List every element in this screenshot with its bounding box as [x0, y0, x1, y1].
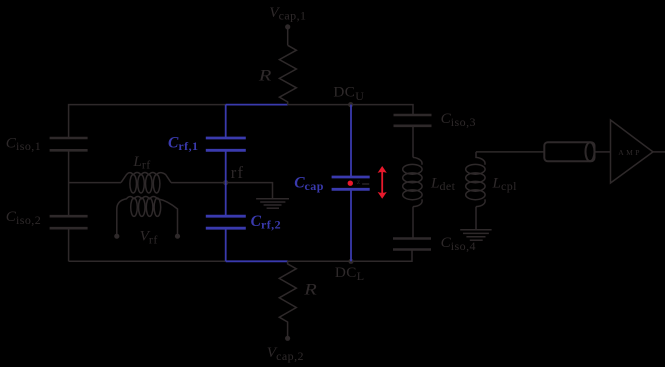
node DC_U	[333, 84, 364, 108]
svg-text:DCL: DCL	[335, 264, 364, 283]
svg-text:Ccap: Ccap	[294, 174, 324, 193]
svg-text:Ldet: Ldet	[430, 174, 456, 193]
wire L_cpl to transmission line	[476, 151, 544, 153]
node V_cap,2	[267, 336, 304, 363]
inductor L_rf	[121, 172, 171, 193]
wire L_cpl to ground	[475, 207, 477, 230]
wire rf node to ground	[226, 183, 273, 199]
tiny z marker next to red dot	[357, 177, 369, 186]
svg-text:AMP: AMP	[618, 148, 642, 157]
svg-text:Vcap,2: Vcap,2	[267, 344, 304, 363]
svg-text:Vrf: Vrf	[140, 228, 158, 247]
capacitor C_iso,2	[50, 216, 88, 228]
transmission line (cylinder)	[544, 142, 594, 161]
wire C_iso,3 to L_det	[412, 126, 414, 158]
capacitor C_cap (blue)	[332, 177, 370, 189]
svg-text:rf: rf	[231, 163, 245, 182]
wire cylinder to amplifier	[595, 151, 611, 153]
wire bottom rail left (dark)	[69, 260, 226, 262]
svg-text:Crf,2: Crf,2	[251, 213, 281, 232]
wire middle rail from left rail to L_rf	[69, 182, 121, 184]
wire top rail middle (blue)	[226, 104, 288, 106]
node V_cap,1	[269, 4, 306, 30]
svg-text:Vcap,1: Vcap,1	[269, 4, 306, 23]
svg-text:Ciso,3: Ciso,3	[441, 110, 476, 129]
svg-text:Lrf: Lrf	[132, 153, 150, 172]
ion red dot inside C_cap	[348, 181, 353, 186]
inductor L_cpl	[466, 152, 485, 207]
wire left rail below C_iso,2	[68, 228, 70, 261]
wire L_det to C_iso,4	[412, 207, 414, 239]
svg-text:DCU: DCU	[333, 84, 364, 103]
capacitor C_rf,2 (blue)	[206, 183, 246, 262]
transformer secondary coil	[117, 197, 178, 234]
capacitor C_iso,1	[50, 138, 88, 150]
wire bottom rail middle (blue)	[226, 260, 288, 262]
wire top rail right with corner down to C_iso,3	[288, 105, 413, 115]
capacitor C_rf,1 (blue)	[206, 105, 246, 183]
node rf	[223, 163, 244, 185]
wire top rail left (dark)	[69, 105, 226, 138]
inductor L_det	[403, 157, 422, 206]
terminal dot V_rf right	[175, 234, 180, 239]
wire L_rf to rf node	[171, 182, 226, 184]
terminal dot V_rf left	[114, 234, 119, 239]
svg-text:R: R	[303, 280, 317, 298]
wire bottom rail right with corner up to C_iso,4	[288, 250, 413, 262]
wire blue center upper (DC_U to C_cap)	[350, 105, 352, 177]
wire amplifier output	[653, 151, 665, 153]
ground (L_cpl)	[460, 230, 491, 240]
ground (rf)	[256, 199, 289, 209]
op-amp U1 (AMP triangle)	[611, 120, 654, 183]
red motion arrow (double-headed)	[378, 166, 387, 199]
capacitor C_iso,4	[393, 239, 431, 250]
svg-text:Crf,1: Crf,1	[168, 134, 198, 153]
svg-text:Ciso,2: Ciso,2	[6, 208, 41, 227]
svg-text:Ciso,1: Ciso,1	[6, 134, 41, 153]
wire left rail between C_iso,1 and C_iso,2	[68, 150, 70, 216]
resistor R2 (bottom)	[279, 261, 296, 338]
resistor R1 (top)	[279, 45, 296, 104]
svg-text:R: R	[258, 66, 272, 84]
node DC_L	[335, 259, 364, 284]
wire blue center lower (C_cap to DC_L)	[350, 189, 352, 261]
capacitor C_iso,3	[394, 115, 432, 126]
svg-text:Lcpl: Lcpl	[492, 174, 518, 193]
wire V_cap,1 to resistor	[287, 27, 289, 45]
